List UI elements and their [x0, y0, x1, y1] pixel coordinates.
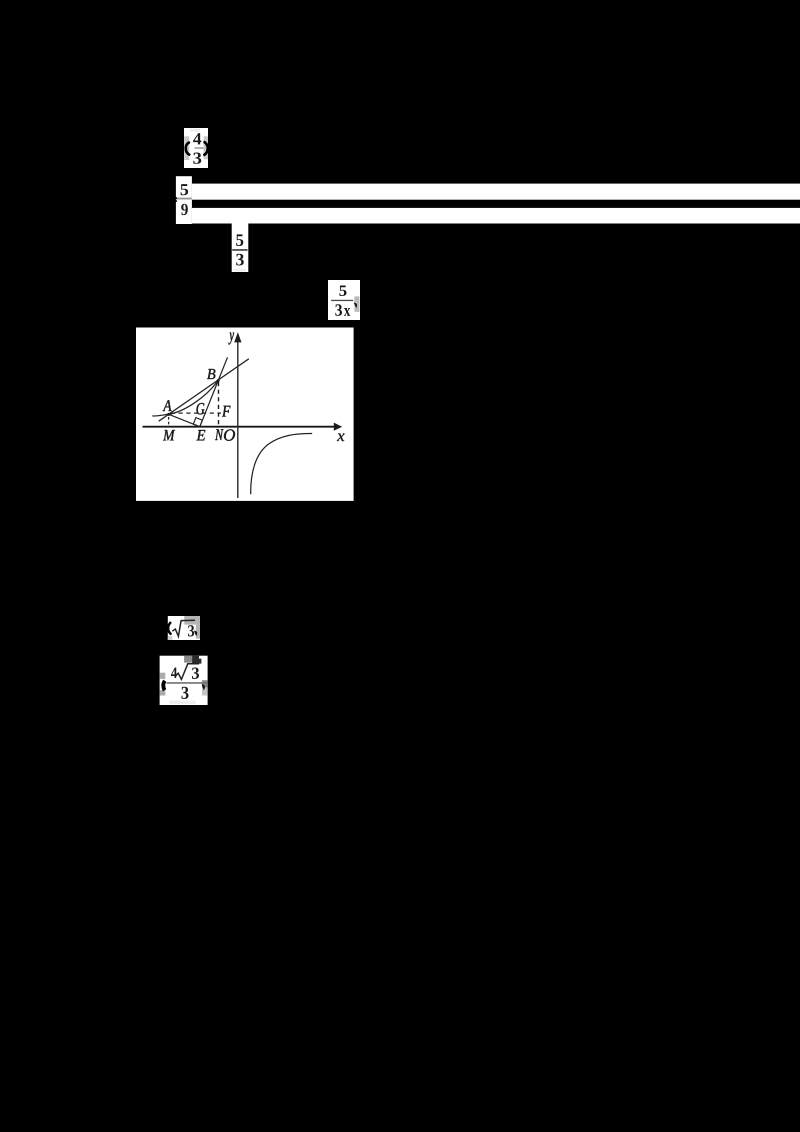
- y-axis arrowhead: [234, 332, 241, 342]
- formula box 5/9: [176, 176, 192, 224]
- denominator 3: [193, 153, 201, 164]
- 5/3x comma mark: [355, 303, 357, 306]
- x-axis arrowhead: [334, 423, 342, 431]
- hyperbola branch through A,B: [152, 380, 218, 416]
- 4/3 fraction bar: [195, 147, 204, 148]
- right angle mark at E: [193, 418, 202, 427]
- 5/3x denominator x: [344, 308, 350, 316]
- sqrt3 left brace mark: [168, 623, 170, 634]
- point dot A: [167, 413, 170, 416]
- dashed line B-N: [218, 382, 220, 427]
- formula box 4sqrt(3)/3: [160, 656, 208, 705]
- white bar 2: [192, 208, 800, 224]
- 433 right light patch: [202, 688, 208, 696]
- 433 bottom light strip: [170, 701, 196, 704]
- 5/3 numerator 5: [236, 234, 243, 246]
- 5/3 bottom light strip: [234, 269, 247, 272]
- sqrt3 radical sign: [172, 620, 195, 636]
- 433 left black mark: [162, 680, 166, 690]
- point dot B: [217, 379, 220, 382]
- x-axis label x: [337, 434, 345, 442]
- 433 top gray block: [184, 656, 192, 663]
- 5/3 denominator 3: [236, 254, 244, 266]
- 5/9 numerator 5: [181, 184, 189, 195]
- 433 left gray patch lower: [160, 690, 166, 695]
- sqrt3 comma mark: [195, 631, 197, 634]
- y-axis: [237, 341, 239, 498]
- 433 fraction bar: [167, 682, 208, 684]
- dashed line A-F: [171, 412, 221, 414]
- 433 top dark step: [199, 659, 201, 664]
- numerator 4: [193, 133, 201, 144]
- point label A: [163, 400, 172, 411]
- 5/9 left tick lower: [175, 200, 177, 202]
- 5/9 left tick upper: [175, 197, 177, 199]
- sqrt3 top-right gray patch: [184, 616, 200, 625]
- 4/3 left gray patch: [184, 136, 189, 160]
- right paren mark: [204, 142, 207, 155]
- point label M: [163, 430, 175, 440]
- point label F: [222, 406, 231, 417]
- y-axis label y: [229, 333, 235, 345]
- 5/9 denominator 9: [181, 204, 188, 215]
- segment AE: [169, 414, 200, 426]
- 433 top dark block: [192, 656, 199, 664]
- figure panel: [136, 328, 354, 501]
- formula box 5/3: [232, 222, 249, 272]
- 5/3x numerator 5: [339, 286, 346, 297]
- 5/9 fraction bar: [176, 198, 192, 200]
- formula box (4/3): [184, 128, 208, 168]
- 4/3 right gray patch: [204, 136, 208, 159]
- 433 denominator 3: [182, 687, 189, 699]
- 4/3 top light strip: [190, 129, 200, 132]
- dashed tick A-M: [168, 417, 170, 426]
- point label B: [207, 369, 215, 379]
- point label E: [196, 430, 205, 440]
- formula box sqrt(3): [168, 616, 200, 640]
- line through E and B: [200, 357, 228, 426]
- sqrt3 bottom-left light patch: [168, 636, 173, 640]
- hyperbola branch quadrant 4: [251, 433, 313, 494]
- 5/3x denominator 3: [335, 304, 342, 316]
- point label N: [215, 429, 224, 440]
- 433 radical sign: [176, 664, 199, 680]
- 5/3x right gray patch: [354, 296, 359, 311]
- formula box 5/(3x): [328, 280, 360, 320]
- x-axis: [143, 426, 336, 428]
- 433 right gray patch: [202, 680, 208, 687]
- 433 right comma mark: [203, 685, 205, 689]
- 433 numerator 4: [171, 668, 177, 679]
- white bar 1: [192, 184, 800, 200]
- point label O: [224, 429, 235, 440]
- sqrt3 radicand 3: [188, 625, 194, 636]
- point label G: [197, 403, 205, 415]
- line through A and B: [159, 359, 249, 421]
- left paren mark: [186, 143, 189, 155]
- 5/3 fraction bar: [232, 249, 247, 251]
- sqrt3 right gray patch: [196, 625, 200, 639]
- 433 radicand 3: [192, 668, 199, 679]
- 5/3x fraction bar: [331, 300, 353, 301]
- 433 left gray patch upper: [160, 673, 166, 679]
